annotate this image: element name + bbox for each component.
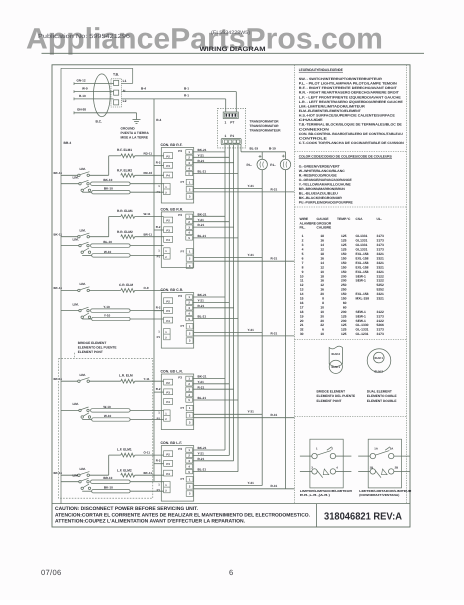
svg-text:18: 18: [320, 252, 324, 256]
pin wires CON. BD R.R.: [193, 212, 238, 238]
svg-text:3122: 3122: [377, 279, 385, 283]
svg-text:H.S.-HOT SURFACE/SUPERFICIE CA: H.S.-HOT SURFACE/SUPERFICIE CALIENTE/SUR…: [299, 114, 396, 118]
wire Y-31 CON. BD R.F.: [194, 184, 263, 189]
svg-text:18: 18: [320, 234, 324, 238]
resistor C.R. ELM: [89, 283, 163, 293]
svg-text:150: 150: [341, 252, 347, 256]
svg-text:8: 8: [322, 301, 324, 305]
svg-text:125: 125: [341, 239, 347, 243]
bridge element caption: [317, 390, 356, 403]
wire link L.R. b: [92, 414, 130, 421]
svg-text:125: 125: [341, 243, 347, 247]
svg-text:3173: 3173: [377, 332, 385, 336]
svg-text:12: 12: [320, 283, 324, 287]
svg-text:ELEMENT DOUBLE: ELEMENT DOUBLE: [367, 399, 397, 403]
caution box: [52, 504, 410, 527]
svg-text:3321: 3321: [377, 256, 385, 260]
svg-text:P2: P2: [166, 219, 170, 223]
svg-text:FIL.: FIL.: [300, 225, 306, 229]
svg-text:BRIDGE ELEMENT: BRIDGE ELEMENT: [317, 390, 346, 394]
svg-text:21: 21: [300, 323, 304, 327]
svg-text:CONNEXION: CONNEXION: [299, 127, 330, 131]
svg-text:EXL-158: EXL-158: [356, 270, 369, 274]
switch LIM R.F. 2: [79, 180, 91, 191]
svg-text:P.L. - PILOT LIGHT/LAMPARA PIL: P.L. - PILOT LIGHT/LAMPARA PILOTO/LAMPE …: [299, 82, 398, 86]
svg-text:Y.-YELLOW/AMARILLO/JAUNE: Y.-YELLOW/AMARILLO/JAUNE: [299, 182, 352, 186]
svg-text:BRIDGE ELEMENT: BRIDGE ELEMENT: [78, 341, 107, 345]
wire to board L.R. a: [130, 409, 164, 411]
svg-text:LIM.: LIM.: [73, 402, 79, 406]
svg-text:DUAL ELEMENT: DUAL ELEMENT: [367, 390, 392, 394]
svg-text:32: 32: [300, 328, 304, 332]
svg-text:BL-21: BL-21: [198, 170, 207, 174]
wire W-9: [74, 87, 114, 93]
wire stub lower C.R.: [61, 302, 79, 310]
svg-text:W-9: W-9: [82, 87, 88, 91]
svg-text:3173: 3173: [377, 314, 385, 318]
svg-text:BK-21: BK-21: [198, 212, 207, 216]
svg-text:R.R. ELM2: R.R. ELM2: [117, 230, 133, 234]
svg-text:16: 16: [320, 279, 324, 283]
wire R-2 stub CON. BD R.R.: [154, 225, 164, 230]
svg-text:R-21: R-21: [198, 159, 205, 163]
svg-text:P2: P2: [166, 154, 170, 158]
svg-text:19: 19: [300, 314, 304, 318]
pin wires CON. BD R.F.: [193, 148, 238, 174]
resistor L.R. ELM: [89, 374, 163, 384]
wire stub BK-11 L.F.: [54, 471, 78, 475]
svg-text:BR-10: BR-10: [103, 476, 112, 480]
pilot light P.L. 1: [247, 155, 268, 170]
svg-text:3321: 3321: [377, 252, 385, 256]
svg-text:318046821 REV:A: 318046821 REV:A: [324, 512, 403, 523]
wire link L.F. b: [92, 486, 130, 493]
svg-text:5: 5: [302, 252, 304, 256]
wire branch R.F.: [89, 156, 120, 176]
svg-text:B-1: B-1: [184, 86, 189, 90]
svg-text:RD-10: RD-10: [144, 171, 153, 175]
wire BL-19 / B-19 pilot feed: [241, 145, 286, 160]
svg-text:P7: P7: [181, 406, 185, 410]
svg-text:LIM.: LIM.: [73, 474, 79, 478]
svg-text:R.-RED/ROJO/ROUGE: R.-RED/ROJO/ROUGE: [299, 173, 338, 177]
transformer secondary connector 1 P1: [221, 134, 241, 145]
wire branch R.R.: [89, 217, 120, 237]
svg-text:20: 20: [320, 292, 324, 296]
svg-text:P1: P1: [157, 254, 161, 258]
svg-text:W-10: W-10: [103, 405, 111, 409]
wire to board R.R. b: [82, 254, 163, 256]
svg-text:22: 22: [320, 323, 324, 327]
svg-text:125: 125: [341, 323, 347, 327]
svg-text:Y-10: Y-10: [103, 305, 110, 309]
switch LIM C.R. 2: [79, 307, 91, 318]
svg-text:CAUTION: DISCONNECT POWER BEFO: CAUTION: DISCONNECT POWER BEFORE SERVICI…: [55, 506, 199, 512]
svg-text:150: 150: [341, 265, 347, 269]
svg-text:BK-10: BK-10: [104, 486, 113, 490]
switch LIM C.R. 1: [78, 287, 90, 292]
svg-text:P3: P3: [178, 213, 182, 217]
svg-text:COLOR CODE/CODIGO DE COLORES/C: COLOR CODE/CODIGO DE COLORES/CODE DE COU…: [299, 155, 393, 159]
svg-text:SEW-1: SEW-1: [356, 319, 367, 323]
limiter detail box: [358, 439, 410, 488]
wire stub lower L.R.: [61, 402, 79, 410]
svg-text:10: 10: [320, 332, 324, 336]
wire R-2 stub CON. BD L.F.: [154, 459, 164, 464]
svg-text:200: 200: [341, 310, 347, 314]
svg-text:SEW-1: SEW-1: [356, 274, 367, 278]
svg-text:10: 10: [320, 305, 324, 309]
svg-text:TEMP.°C: TEMP.°C: [337, 217, 351, 221]
wire branch L.F.: [89, 455, 120, 475]
svg-text:C.R. ELM: C.R. ELM: [119, 283, 133, 287]
svg-text:O-9: O-9: [144, 286, 149, 290]
svg-text:3: 3: [302, 243, 304, 247]
wire to board R.F. b: [82, 191, 163, 193]
svg-text:O-11: O-11: [144, 451, 151, 455]
svg-text:BK-21: BK-21: [198, 375, 207, 379]
transformer primary connector 1 PT: [223, 112, 238, 125]
control board CON. BD R.R.: [157, 207, 194, 268]
terminal strip with L1 N L2: [111, 79, 127, 107]
wire link R.F. b: [92, 187, 130, 194]
switch LIM L.F. 1: [78, 472, 90, 477]
svg-text:BR.-BROWN/MARRON/BRUN: BR.-BROWN/MARRON/BRUN: [299, 187, 346, 191]
svg-text:EXL-158: EXL-158: [356, 292, 369, 296]
svg-text:14: 14: [320, 243, 324, 247]
svg-text:(DOWNDRAFT/VENTANA): (DOWNDRAFT/VENTANA): [359, 493, 399, 497]
svg-text:R.F. ELM2: R.F. ELM2: [117, 169, 132, 173]
svg-text:R-1: R-1: [184, 94, 189, 98]
legend title: [299, 68, 344, 72]
svg-text:3321: 3321: [377, 292, 385, 296]
svg-text:BL-21: BL-21: [198, 468, 207, 472]
svg-text:LIM.: LIM.: [80, 228, 86, 232]
svg-text:CONTROLE: CONTROLE: [299, 136, 328, 140]
svg-text:R-2: R-2: [156, 225, 161, 229]
svg-text:R-31: R-31: [271, 331, 278, 335]
svg-text:CON. BD C.R.: CON. BD C.R.: [161, 288, 184, 292]
svg-text:W-10: W-10: [104, 414, 112, 418]
wire bus R vertical: [285, 170, 287, 489]
svg-text:P4: P4: [166, 472, 170, 476]
svg-text:11: 11: [300, 279, 304, 283]
svg-text:BK-21: BK-21: [198, 293, 207, 297]
svg-text:RD-11: RD-11: [144, 151, 153, 155]
svg-text:GL-1231: GL-1231: [356, 332, 369, 336]
svg-text:12: 12: [320, 248, 324, 252]
wire to board C.R. b: [82, 318, 163, 320]
svg-text:LIM.: LIM.: [80, 282, 86, 286]
svg-text:P3: P3: [166, 391, 170, 395]
svg-text:P3: P3: [166, 462, 170, 466]
svg-text:BL-21: BL-21: [198, 234, 207, 238]
secondary bus wires from P1: [225, 145, 238, 472]
wire stub lower L.F.: [61, 474, 79, 482]
svg-text:SW. - SWITCH/INTERRUPTOR/INTE: SW. - SWITCH/INTERRUPTOR/INTERRUPTEUR: [299, 77, 383, 81]
svg-text:GL-1331: GL-1331: [356, 328, 369, 332]
svg-text:150: 150: [341, 297, 347, 301]
svg-text:LIM.: LIM.: [73, 237, 79, 241]
switch LIM L.R. 1: [78, 378, 90, 383]
svg-text:BL-21: BL-21: [198, 396, 207, 400]
svg-text:3173: 3173: [377, 239, 385, 243]
svg-text:ELEMENTO DEL PUENTE: ELEMENTO DEL PUENTE: [78, 346, 117, 350]
svg-text:6: 6: [229, 568, 233, 577]
svg-text:B-19: B-19: [269, 146, 276, 150]
switch LIM L.F. 2: [79, 478, 91, 489]
wire link C.R. b: [92, 313, 130, 320]
svg-text:BK-10: BK-10: [103, 178, 112, 182]
svg-text:16: 16: [320, 256, 324, 260]
svg-text:W.-WHITE/BLANCO/BLANC: W.-WHITE/BLANCO/BLANC: [299, 169, 346, 173]
svg-text:ELM 2: ELM 2: [332, 352, 341, 356]
wire to board R.F. a: [130, 183, 164, 185]
svg-text:P.L.: P.L.: [247, 163, 253, 167]
svg-text:3321: 3321: [377, 261, 385, 265]
svg-text:1A: 1A: [374, 447, 378, 451]
svg-text:MXL-158: MXL-158: [356, 297, 370, 301]
svg-text:SEW-1: SEW-1: [356, 310, 367, 314]
svg-text:BR-4: BR-4: [64, 141, 72, 145]
svg-text:R-31: R-31: [271, 413, 278, 417]
svg-text:10: 10: [320, 270, 324, 274]
svg-text:2A: 2A: [390, 447, 394, 451]
svg-text:R.F. ELM1: R.F. ELM1: [117, 148, 132, 152]
svg-text:BL-21: BL-21: [198, 315, 207, 319]
svg-text:R-2: R-2: [156, 161, 161, 165]
svg-text:R.F. - RIGHT FRONT/FRENTE DERE: R.F. - RIGHT FRONT/FRENTE DERECHO/AVANT …: [299, 86, 397, 90]
svg-text:BK.-BLACK/NEGRO/NOIR: BK.-BLACK/NEGRO/NOIR: [299, 196, 343, 200]
svg-text:BK-21: BK-21: [198, 148, 207, 152]
svg-text:LIM.-LIMITER/LIMITADOR/LIMITEU: LIM.-LIMITER/LIMITADOR/LIMITEUR: [299, 104, 366, 108]
svg-text:GL-1330: GL-1330: [356, 323, 369, 327]
svg-text:EXL-158: EXL-158: [356, 261, 369, 265]
svg-text:GN-55: GN-55: [77, 107, 86, 111]
svg-text:3321: 3321: [377, 297, 385, 301]
svg-text:3173: 3173: [377, 328, 385, 332]
svg-text:ELEMENTO DEL PUENTE: ELEMENTO DEL PUENTE: [317, 394, 356, 398]
svg-text:4: 4: [302, 248, 304, 252]
svg-text:UL.: UL.: [377, 217, 382, 221]
svg-text:B-4: B-4: [141, 86, 146, 90]
legend column border: [295, 65, 407, 504]
svg-text:C.T.-COOK TOP/PLANCHA DE COCIN: C.T.-COOK TOP/PLANCHA DE COCINAR/TABLE D…: [299, 141, 405, 145]
pin wires CON. BD C.R.: [193, 293, 238, 319]
svg-text:1: 1: [225, 121, 227, 125]
svg-text:R.R. ELM1: R.R. ELM1: [117, 209, 133, 213]
svg-text:P3: P3: [178, 294, 182, 298]
legend text block: [299, 77, 405, 145]
svg-text:Y-11: Y-11: [144, 377, 150, 381]
svg-text:BK-11: BK-11: [54, 471, 63, 475]
svg-text:EXL-158: EXL-158: [356, 256, 369, 260]
svg-text:L1: L1: [123, 79, 127, 83]
svg-text:18: 18: [320, 274, 324, 278]
svg-text:9: 9: [302, 270, 304, 274]
wire link L.F. a: [91, 476, 131, 483]
svg-text:LIM.: LIM.: [80, 373, 86, 377]
wire stub BK-11 L.R.: [54, 377, 78, 381]
pin wires CON. BD L.F.: [193, 446, 238, 472]
svg-text:200: 200: [341, 319, 347, 323]
svg-text:Y-10: Y-10: [104, 313, 111, 317]
svg-text:3173: 3173: [377, 243, 385, 247]
svg-text:GN-12: GN-12: [77, 79, 86, 83]
wire link R.R. b: [92, 250, 130, 257]
svg-text:1: 1: [302, 234, 304, 238]
svg-text:125: 125: [341, 332, 347, 336]
wire R-31 CON. BD L.R.: [194, 413, 295, 418]
svg-text:G.-GREEN/VERDE/VERT: G.-GREEN/VERDE/VERT: [299, 164, 340, 168]
svg-text:2122: 2122: [377, 319, 385, 323]
svg-text:BK-21: BK-21: [198, 446, 207, 450]
svg-text:14: 14: [300, 292, 304, 296]
svg-text:60: 60: [343, 301, 347, 305]
svg-text:TRANSFORMATEUR: TRANSFORMATEUR: [250, 129, 282, 133]
svg-text:P3: P3: [166, 309, 170, 313]
switch LIM R.R. 1: [78, 233, 90, 238]
wire link R.F. a: [91, 178, 131, 185]
svg-text:ELEMENTO DOBLE: ELEMENTO DOBLE: [367, 394, 397, 398]
resistor L.F. ELM1: [117, 448, 164, 458]
pin wires CON. BD L.R.: [193, 375, 238, 401]
svg-text:Y-21: Y-21: [198, 299, 205, 303]
limiter detail box: [300, 439, 352, 488]
svg-text:BK-11: BK-11: [54, 377, 63, 381]
svg-text:P7: P7: [181, 180, 185, 184]
svg-text:P1: P1: [230, 134, 234, 138]
svg-text:R-2: R-2: [156, 306, 161, 310]
svg-text:13: 13: [300, 288, 304, 292]
svg-text:P7: P7: [181, 324, 185, 328]
wire Y-31 CON. BD C.R.: [194, 328, 263, 333]
svg-text:20: 20: [300, 319, 304, 323]
svg-text:125: 125: [341, 328, 347, 332]
svg-text:EXL-158: EXL-158: [356, 265, 369, 269]
svg-text:(EL5534228W5): (EL5534228W5): [211, 30, 250, 36]
svg-text:LIM.: LIM.: [80, 467, 86, 471]
limiter caption: [359, 489, 412, 497]
resistor R.F. ELM1: [117, 148, 164, 158]
svg-text:P2: P2: [166, 299, 170, 303]
svg-text:2B: 2B: [395, 465, 399, 469]
svg-text:Y-21: Y-21: [198, 218, 205, 222]
svg-text:R-31: R-31: [271, 257, 278, 261]
svg-text:P4: P4: [166, 319, 170, 323]
ground label text: [121, 127, 150, 140]
svg-text:07/06: 07/06: [41, 568, 62, 577]
switch LIM R.F. 1: [78, 172, 90, 177]
transformer label text: [250, 120, 282, 133]
svg-text:6: 6: [322, 328, 324, 332]
dual element symbol ELM1/ELM2: [367, 349, 391, 374]
wire gauge table header: [300, 217, 382, 229]
svg-text:5252: 5252: [377, 283, 385, 287]
wire R-10: [74, 94, 114, 100]
svg-text:Y-21: Y-21: [198, 153, 205, 157]
switch LIM L.R. 2: [79, 407, 91, 418]
control board CON. BD L.R.: [157, 369, 194, 429]
svg-text:B.C.: B.C.: [96, 120, 103, 124]
terminal block T.B. enclosure: [113, 68, 133, 83]
svg-text:O.-ORANGE/NARANJA/ORANGE: O.-ORANGE/NARANJA/ORANGE: [299, 178, 353, 182]
svg-text:CON. BD L.R.: CON. BD L.R.: [161, 369, 183, 373]
control board CON. BD R.F.: [157, 143, 194, 203]
svg-text:TRANSFORMATOR: TRANSFORMATOR: [250, 124, 280, 128]
svg-text:P3: P3: [166, 228, 170, 232]
svg-text:150: 150: [341, 292, 347, 296]
svg-text:R-21: R-21: [198, 457, 205, 461]
control board CON. BD C.R.: [157, 288, 194, 348]
wire gauge table rows: [300, 234, 384, 336]
svg-text:P4: P4: [166, 400, 170, 404]
svg-text:P3: P3: [178, 149, 182, 153]
svg-text:2: 2: [302, 239, 304, 243]
svg-text:18: 18: [300, 310, 304, 314]
wire to board L.F. a: [130, 481, 164, 483]
svg-text:250: 250: [341, 283, 347, 287]
control board CON. BD L.F.: [157, 441, 194, 501]
svg-text:PU.-PURPLE/MORADO/POURPRE: PU.-PURPLE/MORADO/POURPRE: [299, 200, 354, 204]
bridge element dashed boundary: [59, 353, 153, 498]
svg-text:125: 125: [341, 248, 347, 252]
svg-text:3173: 3173: [377, 234, 385, 238]
svg-text:R-4: R-4: [156, 118, 161, 122]
cable bundle oval B.C.: [93, 74, 110, 124]
svg-text:ELM 1: ELM 1: [332, 365, 341, 369]
svg-text:P7: P7: [181, 249, 185, 253]
svg-text:LIM.: LIM.: [73, 176, 79, 180]
svg-text:LIM.: LIM.: [80, 167, 86, 171]
svg-text:R-2: R-2: [156, 387, 161, 391]
svg-text:GL1331: GL1331: [356, 234, 368, 238]
pilot light P.L. 2: [270, 155, 290, 170]
svg-text:150: 150: [341, 256, 347, 260]
svg-text:ELEMENT PONT: ELEMENT PONT: [78, 350, 103, 354]
svg-text:LIM.: LIM.: [73, 302, 79, 306]
svg-text:150: 150: [341, 261, 347, 265]
svg-text:W-10: W-10: [104, 250, 112, 254]
svg-text:Y-31: Y-31: [248, 184, 255, 188]
svg-text:R-21: R-21: [198, 304, 205, 308]
svg-text:1: 1: [225, 134, 227, 138]
svg-text:6: 6: [302, 256, 304, 260]
svg-text:ELM 2: ELM 2: [375, 369, 384, 373]
svg-text:BR-11: BR-11: [144, 232, 153, 236]
wire bus BR-4 left side: [61, 68, 133, 503]
svg-text:SEW-1: SEW-1: [356, 314, 367, 318]
wire link R.R. a: [91, 240, 131, 247]
svg-text:ATENCION:CORTAR EL CORRIENTE A: ATENCION:CORTAR EL CORRIENTE ANTES DE RE…: [55, 512, 311, 518]
wire GN-12: [74, 79, 114, 85]
svg-text:5252: 5252: [377, 288, 385, 292]
svg-text:Publication No: 5995421296: Publication No: 5995421296: [38, 33, 131, 40]
wire R-2 stub CON. BD R.F.: [154, 161, 164, 166]
svg-text:BL-10: BL-10: [103, 240, 112, 244]
svg-text:BK-10: BK-10: [104, 187, 113, 191]
svg-text:14: 14: [320, 261, 324, 265]
svg-text:R.R.,L.R.,(A.R.): R.R.,L.R.,(A.R.): [300, 493, 330, 497]
svg-text:10: 10: [320, 310, 324, 314]
svg-text:CON. BD-CONTROL BOARD/TABLERO: CON. BD-CONTROL BOARD/TABLERO DE CONTROL…: [299, 132, 404, 136]
svg-text:LEGEND/LEYENDA/LEGENDE: LEGEND/LEYENDA/LEGENDE: [299, 68, 344, 72]
svg-text:L.F. ELM2: L.F. ELM2: [117, 468, 132, 472]
wire GN-55 to ground: [74, 107, 137, 119]
svg-text:250: 250: [341, 288, 347, 292]
svg-text:17: 17: [300, 305, 304, 309]
svg-text:W-11: W-11: [144, 212, 151, 216]
